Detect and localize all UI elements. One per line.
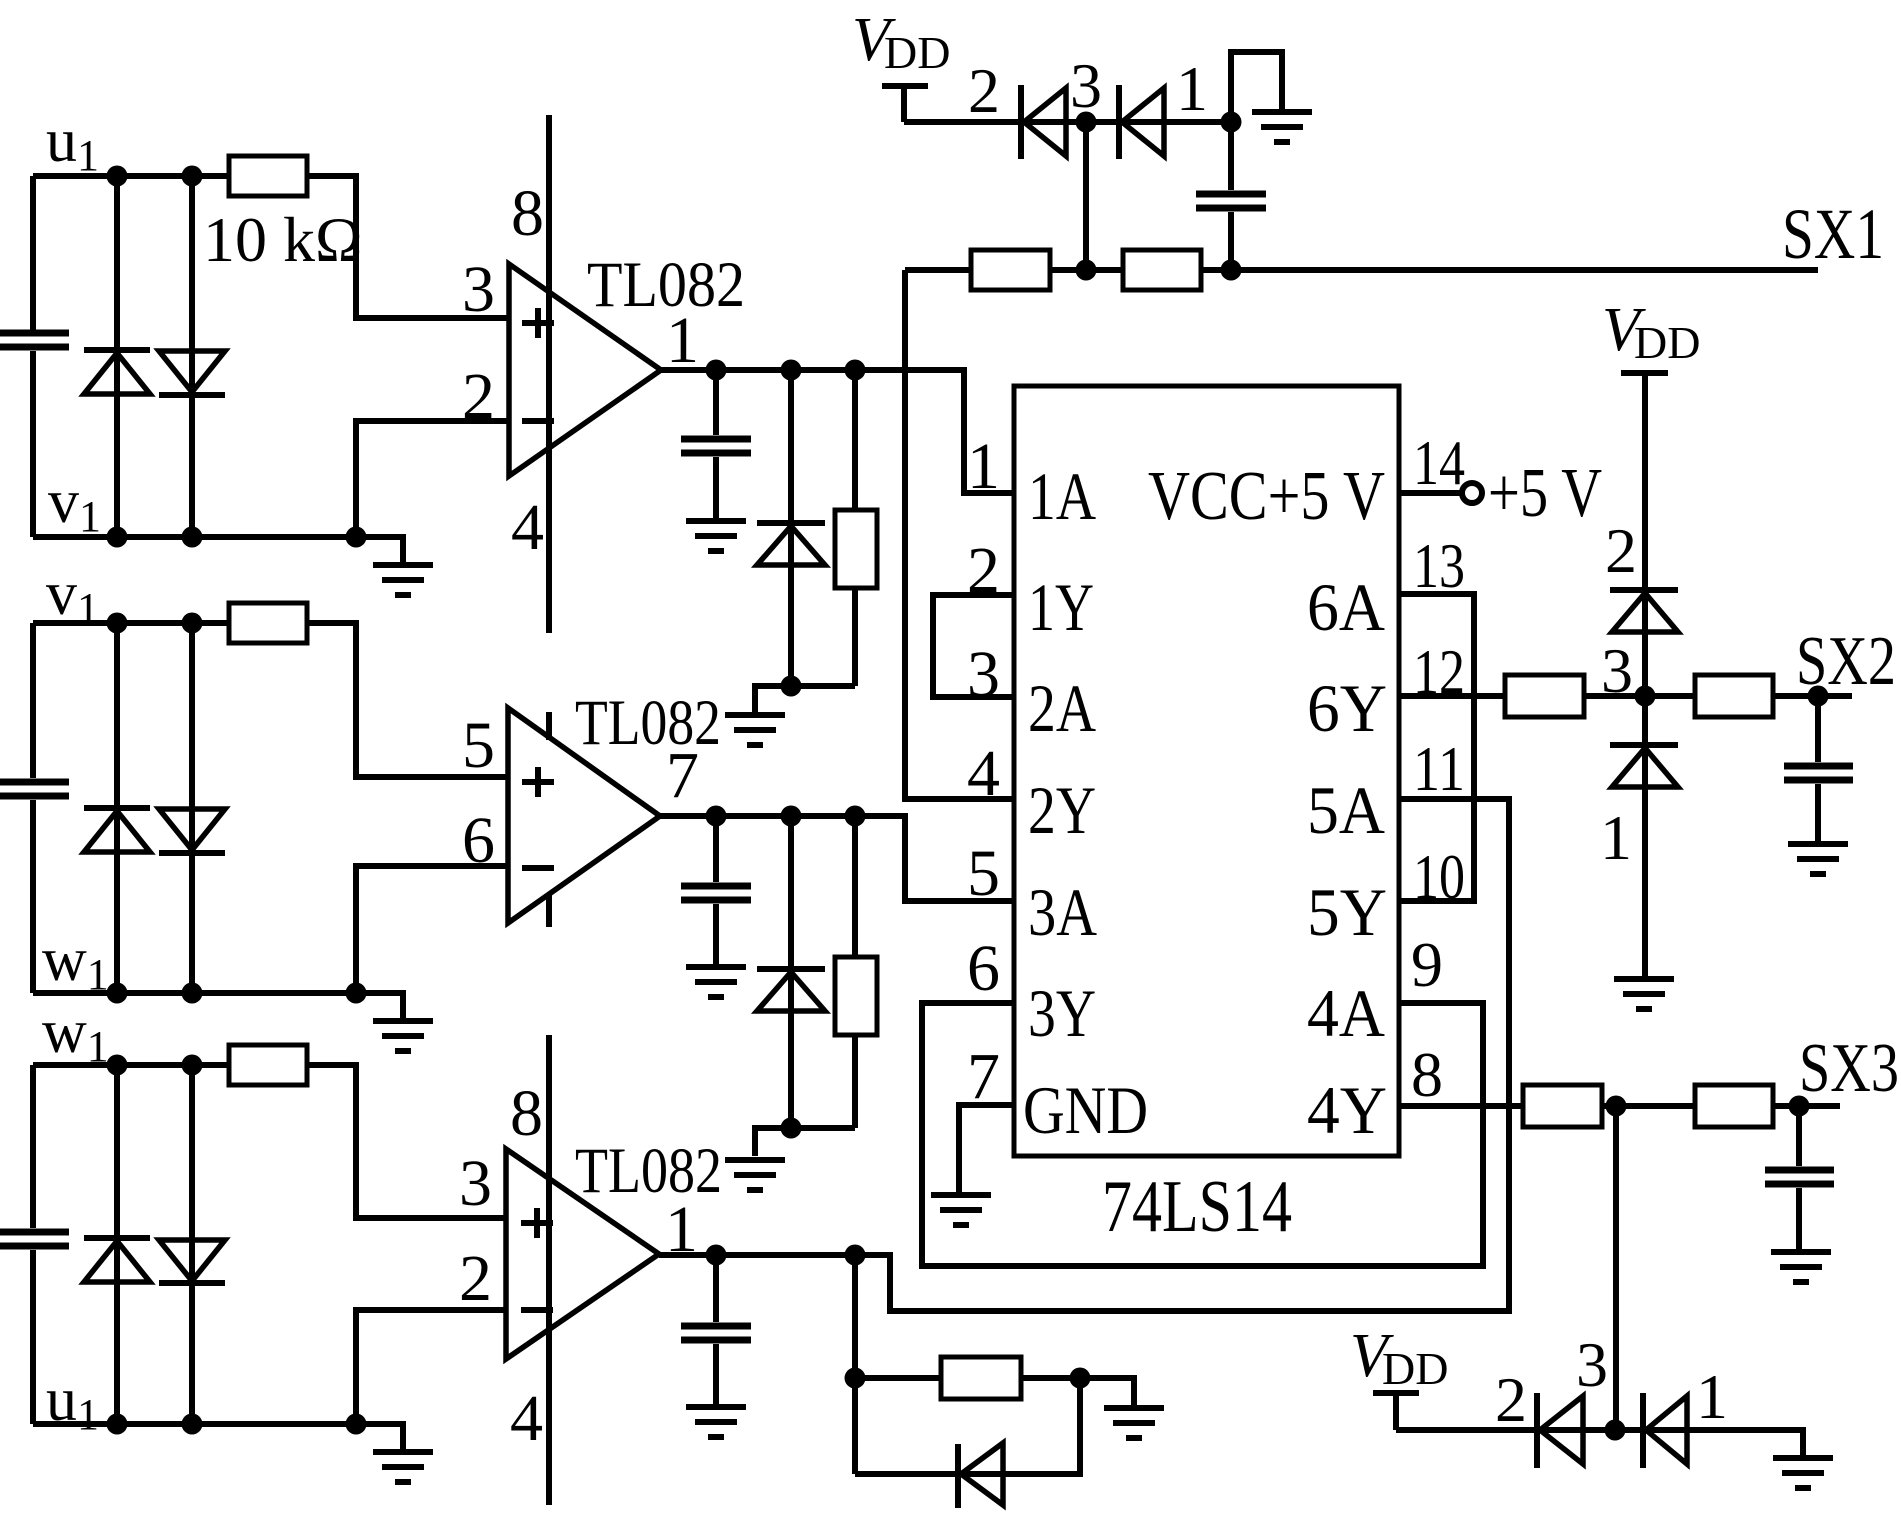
wire op-amp U2 pin6 to bottom rail xyxy=(356,866,508,993)
resistor R6 (U3 output to ground) xyxy=(855,1357,1134,1405)
diode D2a on U1 output (cathode up) xyxy=(757,370,825,686)
wire u1 top rail xyxy=(33,173,229,179)
pin 4 label U1 xyxy=(511,491,544,564)
pin 12 stub to resistor R9 xyxy=(1399,693,1505,699)
svg-text:3Y: 3Y xyxy=(1028,975,1096,1051)
svg-text:w1: w1 xyxy=(42,998,109,1071)
op-amp U2 power stubs xyxy=(546,712,552,927)
diode D3b (clamp, cathode down) xyxy=(159,809,225,853)
svg-text:3: 3 xyxy=(1070,50,1102,121)
diode pair D9 pin2 (cathode left) xyxy=(1537,1393,1583,1468)
svg-text:4: 4 xyxy=(967,737,1000,810)
label TL082 U3 xyxy=(575,1135,722,1207)
resistor R5 xyxy=(229,1045,307,1085)
node v1 label xyxy=(48,468,101,541)
resistor R9 xyxy=(1505,675,1584,717)
label 74LS14 xyxy=(1102,1166,1292,1248)
pin 3 label D7 xyxy=(1070,50,1102,121)
wire D7 pin1 to ground hook xyxy=(1221,52,1283,133)
pin 7 number xyxy=(967,1040,1000,1113)
capacitor C3 on U3 output xyxy=(681,1255,751,1404)
wire v1 top rail stage2 xyxy=(33,620,229,626)
wire v1 bottom rail stage1 xyxy=(33,537,403,562)
ground top right xyxy=(1252,112,1312,142)
junction dots stage1 xyxy=(107,166,367,548)
svg-text:5: 5 xyxy=(967,837,1000,910)
pin 2 number xyxy=(967,534,1000,607)
svg-text:2: 2 xyxy=(967,534,1000,607)
svg-text:1: 1 xyxy=(1696,1361,1728,1432)
wire clamp branch A stage2 xyxy=(114,623,120,993)
svg-text:4: 4 xyxy=(510,1382,543,1455)
svg-text:8: 8 xyxy=(1411,1039,1443,1110)
diode D8 pin2 (cathode up) xyxy=(1610,587,1678,696)
pin 1 label D7 xyxy=(1176,53,1208,124)
svg-text:5A: 5A xyxy=(1307,772,1385,848)
diode pair D7 pin2 (cathode left) xyxy=(1021,85,1066,159)
op-amp U2 TL082 xyxy=(508,708,660,923)
wire U3 output tap down xyxy=(845,1255,866,1474)
capacitor C1 on U1 output xyxy=(681,370,751,518)
wire SX3 node riser to diode pair xyxy=(1613,1106,1619,1430)
pin 11 number xyxy=(1413,733,1465,804)
pin 13 number xyxy=(1413,530,1465,601)
pin 1 label U3 xyxy=(665,1193,698,1266)
svg-text:1A: 1A xyxy=(1028,458,1096,534)
pin 4 stub (2Y riser to SX1 chain) xyxy=(905,270,1014,799)
pin 8 label U1 xyxy=(511,177,544,250)
svg-text:+5 V: +5 V xyxy=(1488,455,1602,532)
pin 1 stub 74LS14 xyxy=(964,490,1014,496)
junction dots stage3 xyxy=(107,1055,367,1435)
wire resistor R3 to op-amp U2 pin5 xyxy=(307,623,508,777)
svg-text:w1: w1 xyxy=(42,926,109,999)
wire clamp branch A stage3 xyxy=(114,1065,120,1424)
wire R9 to node3 SX2 xyxy=(1584,686,1695,707)
ground R6 xyxy=(1104,1408,1164,1438)
ground stage3 input xyxy=(373,1452,433,1482)
resistor R12 xyxy=(1695,1085,1773,1127)
wire R7 to R8 xyxy=(1050,260,1123,281)
node u1 label stage3 xyxy=(46,1366,99,1439)
ground C2 xyxy=(686,967,746,997)
pin 2 label U3 xyxy=(459,1242,492,1315)
ground stage1 input xyxy=(373,565,433,595)
svg-text:1: 1 xyxy=(1600,802,1632,873)
diode pair D9 pin1 (cathode left) xyxy=(1615,1393,1803,1468)
svg-text:2: 2 xyxy=(968,55,1000,126)
svg-text:1: 1 xyxy=(666,304,699,377)
resistor R11 xyxy=(1523,1085,1602,1127)
svg-text:4Y: 4Y xyxy=(1307,1072,1387,1148)
svg-text:1Y: 1Y xyxy=(1028,569,1094,645)
wire resistor R5 to op-amp U3 pin3 xyxy=(307,1065,506,1218)
label +5 V xyxy=(1488,455,1602,532)
pin 2 to pin 3 loop (1Y to 2A) xyxy=(933,595,1014,697)
svg-text:u1: u1 xyxy=(46,1366,99,1439)
ground D8 xyxy=(1614,979,1674,1009)
junction dots stage2 xyxy=(107,613,367,1004)
pin 3 label D8 xyxy=(1601,635,1633,706)
svg-text:8: 8 xyxy=(510,1077,543,1150)
pin 2 label U1 xyxy=(462,360,495,433)
svg-text:4: 4 xyxy=(511,491,544,564)
diode D8 pin1 (cathode up) xyxy=(1610,696,1678,976)
value label 10 kOhm xyxy=(203,204,363,275)
ground C6 xyxy=(1771,1252,1831,1282)
wire R10 to SX2 xyxy=(1773,686,1852,707)
pin 7 stub GND hook xyxy=(959,1105,1014,1192)
diode D1a (clamp, cathode up) xyxy=(84,350,150,394)
wire clamp branch B stage3 xyxy=(189,1065,195,1424)
svg-text:DD: DD xyxy=(1634,317,1700,368)
svg-text:6: 6 xyxy=(462,804,495,877)
resistor R8 xyxy=(1123,250,1201,290)
ground D4a/R4 xyxy=(725,1160,785,1190)
pin 1 number xyxy=(967,430,1000,503)
svg-text:10 kΩ: 10 kΩ xyxy=(203,204,363,275)
capacitor Cv1 (input series cap) xyxy=(0,623,69,993)
wire op-amp U3 pin2 to bottom rail xyxy=(356,1310,506,1424)
pin 8 stub to resistor R11 xyxy=(1399,1103,1523,1109)
op-amp U1 power rail pins 8/4 xyxy=(546,115,552,633)
svg-text:2: 2 xyxy=(462,360,495,433)
ground C5 xyxy=(1788,844,1848,874)
VDD supply bottom xyxy=(1350,1322,1448,1430)
diode D5a (clamp, cathode up) xyxy=(84,1238,150,1282)
svg-text:GND: GND xyxy=(1023,1072,1148,1148)
label TL082 U2 xyxy=(575,687,721,759)
wire clamp branch B stage1 xyxy=(189,176,195,537)
diode pair D7 pin1 (cathode left) xyxy=(1119,85,1164,159)
junction dot D9 node3 xyxy=(1605,1420,1626,1441)
svg-text:v1: v1 xyxy=(48,468,101,541)
wire D4a R4 junction to ground xyxy=(755,1118,855,1157)
pin 3 label U1 xyxy=(462,253,495,326)
wire u1 bottom rail stage3 xyxy=(33,1424,403,1449)
wire resistor R1 to op-amp U1 pin3 xyxy=(307,176,509,318)
pin 9 number xyxy=(1411,929,1443,1000)
svg-text:TL082: TL082 xyxy=(575,687,721,759)
pin 8 number xyxy=(1411,1039,1443,1110)
label SX3 xyxy=(1799,1030,1899,1107)
svg-text:3: 3 xyxy=(462,253,495,326)
op-amp U3 TL082 xyxy=(506,1149,659,1359)
IC 74LS14 body xyxy=(1014,386,1399,1156)
svg-text:11: 11 xyxy=(1413,733,1465,804)
wire w1 top rail stage3 xyxy=(33,1062,229,1068)
svg-text:2: 2 xyxy=(1495,1364,1527,1435)
capacitor C6 on SX3 xyxy=(1765,1106,1834,1249)
svg-text:3: 3 xyxy=(967,638,1000,711)
wire U3 output to 74LS14 pin11 riser xyxy=(659,799,1509,1311)
op-amp U3 power rail pins 8/4 xyxy=(546,1035,552,1505)
capacitor C2 on U2 output xyxy=(681,816,751,964)
pin 6 stub (3Y) riser to pin 9 (4A) xyxy=(922,1003,1483,1266)
svg-text:2: 2 xyxy=(1605,515,1637,586)
resistor R10 xyxy=(1695,675,1773,717)
svg-text:SX3: SX3 xyxy=(1799,1030,1899,1107)
pin 1 label U1 xyxy=(666,304,699,377)
node v1 label stage2 xyxy=(46,560,99,633)
svg-text:6: 6 xyxy=(967,932,1000,1005)
pin 7 label U2 xyxy=(666,739,699,812)
pin 4 label U3 xyxy=(510,1382,543,1455)
diode D4a on U2 output (cathode up) xyxy=(757,816,825,1128)
wire VDD to diode pair bottom xyxy=(1396,1427,1615,1433)
wire clamp branch B stage2 xyxy=(189,623,195,993)
svg-text:5: 5 xyxy=(462,709,495,782)
pin 3 label D9 xyxy=(1576,1329,1608,1400)
svg-text:14: 14 xyxy=(1413,427,1465,498)
wire clamp branch A stage1 xyxy=(114,176,120,537)
pin 8 label U3 xyxy=(510,1077,543,1150)
diode D3a (clamp, cathode up) xyxy=(84,808,150,852)
pin 4 number xyxy=(967,737,1000,810)
svg-text:1: 1 xyxy=(967,430,1000,503)
node w1 label stage3 xyxy=(42,998,109,1071)
ground C1 xyxy=(686,521,746,551)
svg-text:DD: DD xyxy=(1382,1343,1448,1394)
svg-text:5Y: 5Y xyxy=(1307,874,1387,950)
wire op-amp U1 pin2 to bottom rail xyxy=(356,421,509,537)
svg-text:10: 10 xyxy=(1413,841,1465,912)
svg-text:4A: 4A xyxy=(1307,975,1385,1051)
pin 5 number xyxy=(967,837,1000,910)
pin 14 stub with terminal xyxy=(1399,483,1482,503)
wire R11 to SX3 node xyxy=(1602,1096,1695,1117)
wire D2a R2 junction to ground xyxy=(755,676,855,713)
svg-text:3: 3 xyxy=(1576,1329,1608,1400)
capacitor C4 (node to SX1 chain) xyxy=(1196,122,1266,270)
pin texts 74LS14 left column xyxy=(1023,458,1148,1148)
pin 14 number xyxy=(1413,427,1465,498)
svg-text:9: 9 xyxy=(1411,929,1443,1000)
pin 2 label D9 xyxy=(1495,1364,1527,1435)
pin 12 number xyxy=(1413,636,1465,707)
pin 6 number xyxy=(967,932,1000,1005)
svg-text:6Y: 6Y xyxy=(1307,670,1387,746)
resistor R2 on U1 output xyxy=(835,370,877,686)
ground bottom right xyxy=(1773,1458,1833,1488)
svg-text:1: 1 xyxy=(1176,53,1208,124)
capacitor C5 on SX2 xyxy=(1784,696,1853,841)
svg-text:13: 13 xyxy=(1413,530,1465,601)
svg-text:VCC+5 V: VCC+5 V xyxy=(1148,458,1385,535)
ground C3 xyxy=(686,1407,746,1437)
pin 6 label U2 xyxy=(462,804,495,877)
pin 5 label U2 xyxy=(462,709,495,782)
pin 13 stub (6A) riser to pin 10 (5Y) xyxy=(1399,594,1474,901)
svg-text:2A: 2A xyxy=(1028,670,1096,746)
pin 3 label U3 xyxy=(459,1147,492,1220)
junction dots U3 output xyxy=(706,1245,866,1266)
diode D5b (clamp, cathode down) xyxy=(159,1240,225,1283)
wire SX1 chain left xyxy=(905,267,971,273)
pin texts 74LS14 right column xyxy=(1148,458,1387,1148)
label SX1 xyxy=(1782,194,1884,274)
node w1 label stage2 xyxy=(42,926,109,999)
resistor R4 on U2 output xyxy=(835,816,877,1128)
label SX2 xyxy=(1796,623,1896,700)
resistor R3 xyxy=(229,603,307,643)
pin 2 label D7 xyxy=(968,55,1000,126)
svg-text:8: 8 xyxy=(511,177,544,250)
junction dots U2 output xyxy=(706,806,866,827)
wire U1 output node xyxy=(661,370,1014,493)
wire node3 riser to SX1 chain xyxy=(1083,122,1089,270)
svg-text:6A: 6A xyxy=(1307,569,1385,645)
svg-text:7: 7 xyxy=(666,739,699,812)
ground stage2 input xyxy=(373,1021,433,1051)
svg-text:2Y: 2Y xyxy=(1028,772,1096,848)
VDD supply top xyxy=(852,6,950,122)
junction dots U1 output xyxy=(706,360,866,381)
svg-text:74LS14: 74LS14 xyxy=(1102,1166,1292,1248)
svg-text:3: 3 xyxy=(459,1147,492,1220)
pin 2 label D8 xyxy=(1605,515,1637,586)
VDD supply right xyxy=(1602,296,1700,587)
pin 10 number xyxy=(1413,841,1465,912)
svg-text:2: 2 xyxy=(459,1242,492,1315)
wire R12 to SX3 xyxy=(1773,1096,1840,1117)
ground D2a/R2 xyxy=(725,715,785,745)
pin 1 label D8 xyxy=(1600,802,1632,873)
wire w1 bottom rail stage2 xyxy=(33,993,403,1018)
junction dot D7 node3 xyxy=(1076,112,1097,133)
ground pin7 xyxy=(931,1195,991,1225)
capacitor Cu1 (input series cap) xyxy=(0,176,69,537)
svg-text:SX2: SX2 xyxy=(1796,623,1896,700)
svg-text:7: 7 xyxy=(967,1040,1000,1113)
svg-text:TL082: TL082 xyxy=(575,1135,722,1207)
wire VDD to diode pair top xyxy=(904,119,1231,125)
pin 3 number xyxy=(967,638,1000,711)
diode D1b (clamp, cathode down) xyxy=(159,351,225,395)
pin 1 label D9 xyxy=(1696,1361,1728,1432)
wire U2 output node to 74LS14 pin5 xyxy=(660,816,1014,901)
node u1 label xyxy=(46,107,99,180)
capacitor Cw1 (input series cap) xyxy=(0,1065,69,1424)
svg-text:DD: DD xyxy=(884,27,950,78)
svg-text:3A: 3A xyxy=(1028,874,1097,950)
resistor R7 xyxy=(971,250,1050,290)
diode D6 (parallel with R6, cathode left) xyxy=(855,1378,1080,1508)
resistor R1 10 kOhm xyxy=(229,156,307,196)
label TL082 U1 xyxy=(587,249,745,321)
svg-text:SX1: SX1 xyxy=(1782,194,1884,274)
op-amp U1 TL082 xyxy=(509,264,661,476)
svg-text:u1: u1 xyxy=(46,107,99,180)
wire R8 to SX1 xyxy=(1201,260,1818,281)
